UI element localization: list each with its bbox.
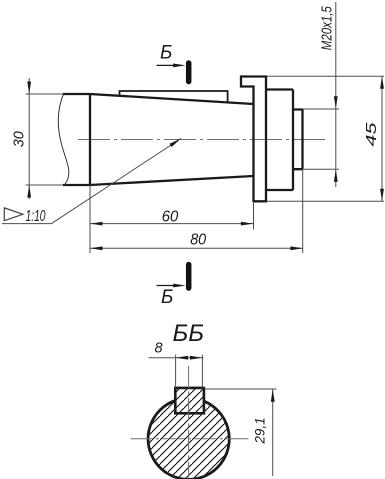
extension lines dim 30 bbox=[26, 94, 63, 185]
svg-text:ББ: ББ bbox=[173, 320, 205, 347]
svg-text:M20x1,5: M20x1,5 bbox=[319, 6, 336, 50]
break line bbox=[58, 94, 69, 185]
svg-text:45: 45 bbox=[364, 121, 380, 146]
dim 8 line bbox=[149, 357, 204, 359]
dim 29,1 line bbox=[272, 389, 274, 476]
svg-text:1:10: 1:10 bbox=[26, 208, 46, 225]
svg-text:30: 30 bbox=[12, 131, 28, 147]
svg-text:60: 60 bbox=[162, 209, 179, 226]
section mark B top bbox=[186, 63, 192, 82]
taper triangle symbol bbox=[4, 208, 23, 221]
cone top edge bbox=[90, 94, 254, 104]
key side view bbox=[120, 91, 228, 103]
centerline main view bbox=[78, 139, 325, 141]
dim 80 extension line right bbox=[302, 170, 304, 253]
dim 80 line bbox=[90, 247, 303, 249]
section circle outline bbox=[148, 401, 229, 479]
dim 45 line bbox=[381, 76, 383, 201]
dim M20x1,5 line bbox=[335, 2, 337, 187]
svg-text:29,1: 29,1 bbox=[253, 418, 268, 445]
section mark B bottom bbox=[186, 265, 192, 289]
section centerlines bbox=[131, 438, 251, 440]
dim 29,1 extension line bbox=[205, 388, 277, 390]
svg-text:Б: Б bbox=[161, 287, 173, 308]
wire shaft bottom edge bbox=[63, 184, 90, 186]
dim M20x1,5 extension lines bbox=[303, 109, 340, 169]
key in section bbox=[175, 388, 204, 413]
cone big end line bbox=[89, 94, 91, 185]
dim 60 extension lines bbox=[90, 185, 254, 253]
dim 8 extension lines bbox=[176, 355, 203, 389]
wire shaft top edge bbox=[63, 93, 90, 95]
dim 60 line bbox=[90, 223, 253, 225]
dim 45 extension lines bbox=[267, 76, 384, 201]
svg-text:8: 8 bbox=[155, 341, 163, 357]
threaded journal M20 bbox=[293, 110, 303, 170]
collar with tab bbox=[241, 77, 266, 202]
svg-text:Б: Б bbox=[160, 43, 172, 64]
svg-text:80: 80 bbox=[190, 231, 206, 248]
middle cylinder bbox=[266, 90, 293, 191]
cone bottom edge bbox=[90, 176, 254, 185]
dim 30 line bbox=[28, 78, 30, 199]
taper leader 1:10 bbox=[2, 139, 181, 224]
dim 30 arrows bbox=[27, 82, 31, 95]
